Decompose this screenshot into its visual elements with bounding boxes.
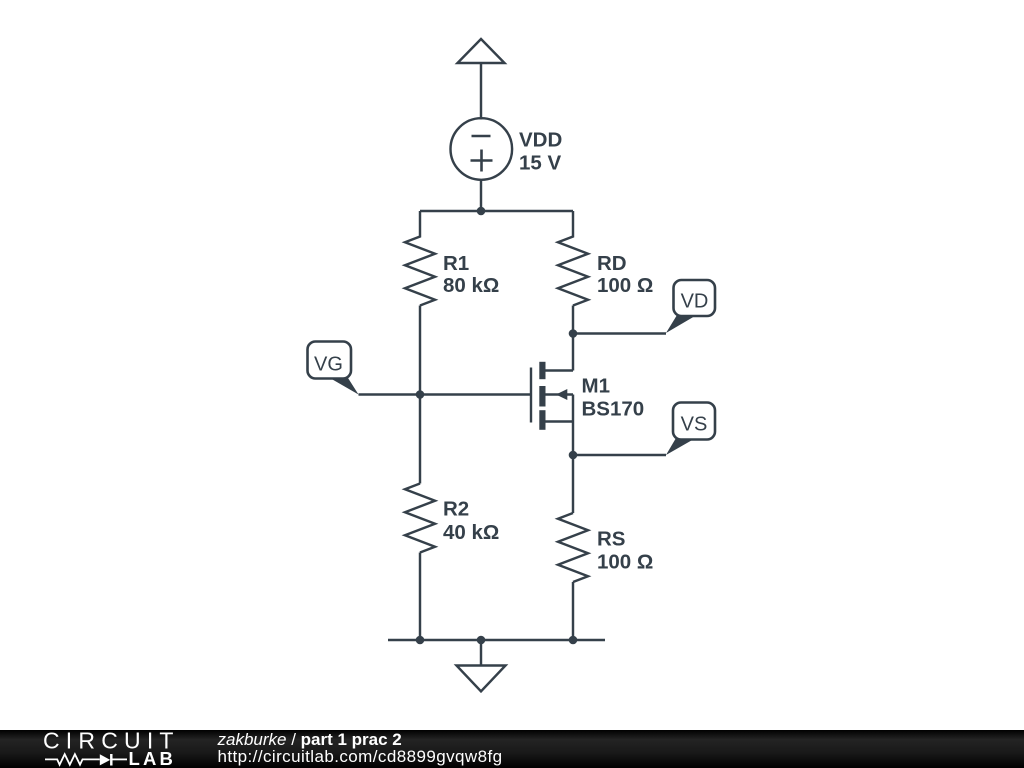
junction gate / divider	[416, 390, 425, 399]
svg-text:VD: VD	[681, 290, 709, 312]
wire V1 to top rail	[480, 180, 482, 211]
junction bottom right	[569, 636, 578, 645]
resistor RS	[558, 513, 588, 582]
svg-text:http://circuitlab.com/cd8899gv: http://circuitlab.com/cd8899gvqw8fg	[218, 747, 503, 766]
wire VG flag to gate	[359, 393, 532, 395]
wire top rail	[420, 210, 573, 212]
junction bottom center	[477, 636, 486, 645]
flag VG	[308, 342, 359, 395]
transistor M1 (NMOS BS170)	[531, 362, 573, 513]
wire bottom rail	[388, 639, 605, 641]
resistor R1	[405, 211, 435, 306]
wire R1 to R2 (left branch)	[419, 306, 421, 484]
svg-text:BS170: BS170	[582, 398, 645, 421]
footer bar	[0, 730, 1024, 768]
wire supply arrow to V1	[480, 64, 482, 120]
flag VS	[666, 403, 715, 456]
wire RD to M1 drain	[572, 306, 574, 371]
svg-text:VG: VG	[314, 353, 343, 375]
junction node VD	[569, 329, 578, 338]
power flag VDD (supply arrow)	[458, 39, 505, 63]
svg-text:100 Ω: 100 Ω	[597, 274, 653, 297]
svg-text:VS: VS	[681, 413, 708, 435]
junction bottom left	[416, 636, 425, 645]
wire R2 to bottom rail	[419, 553, 421, 641]
ground	[457, 640, 506, 691]
flag VD	[666, 280, 715, 333]
svg-text:RS: RS	[597, 528, 625, 551]
junction top rail	[477, 207, 486, 216]
svg-text:80 kΩ: 80 kΩ	[443, 274, 499, 297]
wire RS to bottom rail	[572, 582, 574, 640]
resistor R2	[405, 484, 435, 553]
svg-text:RD: RD	[597, 252, 627, 275]
logo resistor-diode glyph	[45, 754, 127, 766]
svg-text:R1: R1	[443, 252, 469, 275]
svg-text:LAB: LAB	[129, 748, 177, 768]
svg-text:R2: R2	[443, 498, 469, 521]
resistor RD	[558, 211, 588, 306]
wire node VD to flag	[573, 332, 666, 334]
voltage source V1 (VDD 15V)	[451, 118, 513, 180]
svg-text:15 V: 15 V	[519, 152, 561, 175]
svg-text:M1: M1	[582, 375, 610, 398]
svg-text:100 Ω: 100 Ω	[597, 551, 653, 574]
svg-text:zakburke / part 1 prac 2: zakburke / part 1 prac 2	[217, 730, 402, 749]
svg-text:VDD: VDD	[519, 128, 562, 151]
junction node VS	[569, 451, 578, 460]
wire node VS to flag	[573, 454, 666, 456]
svg-text:40 kΩ: 40 kΩ	[443, 521, 499, 544]
